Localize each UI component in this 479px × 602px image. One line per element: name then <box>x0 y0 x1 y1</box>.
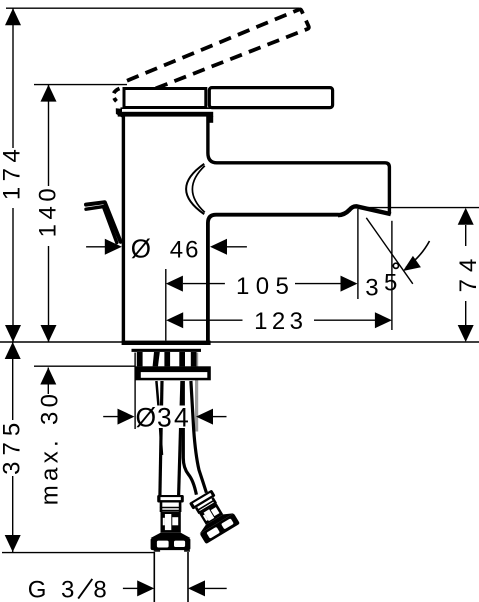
lever raised rear end (dashed arc) <box>113 89 119 102</box>
svg-text:105: 105 <box>236 273 295 300</box>
ref line: lever max height <box>6 7 299 9</box>
dim 74 <box>465 225 467 246</box>
label O34 backing <box>136 406 190 429</box>
svg-text:Ø: Ø <box>131 234 151 264</box>
dim 140 line <box>48 85 50 186</box>
lever raised pivot dash <box>116 108 122 117</box>
handle cap <box>124 89 206 108</box>
svg-text:46: 46 <box>170 236 201 263</box>
body bottom plate <box>122 341 211 345</box>
pull rod knob (upper stroke) <box>86 202 121 242</box>
svg-text:3: 3 <box>61 577 74 602</box>
hose connector right <box>183 486 240 544</box>
right hose wall R <box>191 381 207 493</box>
svg-text:74: 74 <box>455 252 479 293</box>
mounting studs <box>137 352 143 366</box>
right hose wall L <box>183 381 196 495</box>
trim ring <box>118 112 214 117</box>
spout bottom edge <box>208 215 339 341</box>
svg-text:140: 140 <box>35 184 62 238</box>
ext line: faucet axis <box>165 269 167 341</box>
hose connector left <box>151 495 191 552</box>
svg-text:5: 5 <box>384 270 397 297</box>
dim max30 line <box>47 368 49 395</box>
spout root crescent inner arc <box>192 166 204 213</box>
pull rod knob (lower stroke) <box>86 207 117 243</box>
dim 174 line <box>12 8 14 148</box>
svg-text:max. 30: max. 30 <box>37 390 64 505</box>
countertop line <box>0 341 479 343</box>
G3/8 tail tube wall R <box>187 552 189 602</box>
dim 375 line <box>12 342 14 420</box>
body left wall <box>122 116 125 341</box>
svg-text:3: 3 <box>365 275 378 302</box>
O34 ext line right (gray) <box>195 353 198 432</box>
dim O34 <box>103 416 119 418</box>
svg-text:8: 8 <box>93 577 106 602</box>
dim O46 <box>86 246 108 248</box>
body right wall + spout top edge + spout right end <box>208 116 390 214</box>
svg-text:G: G <box>28 577 47 602</box>
G3/8 tail tube wall L <box>153 552 155 602</box>
mounting flange slab <box>135 366 211 380</box>
dim G3/8 <box>123 587 138 589</box>
dim 123 <box>166 312 183 328</box>
left hose wall R <box>179 381 182 496</box>
ref line: cap top (140) <box>34 84 127 86</box>
svg-text:Ø: Ø <box>136 402 157 432</box>
bottom ref line <box>2 552 154 554</box>
svg-text:174: 174 <box>0 144 26 201</box>
ref line: outlet height <box>358 207 479 209</box>
left hose wall L <box>160 381 162 496</box>
svg-text:123: 123 <box>254 308 307 335</box>
lever bar <box>209 88 332 108</box>
aerator beak <box>338 206 391 215</box>
lever raised (dashed) <box>127 9 309 90</box>
angle arc leader <box>406 241 430 268</box>
pull rod below deck <box>156 381 162 455</box>
ext line: spout end <box>391 221 393 330</box>
ref line: counter underside <box>34 365 135 367</box>
angle 35 leg <box>366 218 413 284</box>
cap bottom line <box>121 107 211 109</box>
ext line: aerator outlet <box>357 209 359 299</box>
spout root crescent outer arc <box>186 164 204 214</box>
O34 ext line left <box>134 353 136 430</box>
svg-text:375: 375 <box>0 417 26 475</box>
base ring <box>132 349 202 352</box>
dim 105 <box>166 276 183 292</box>
trim ring right step <box>209 116 214 123</box>
svg-text:34: 34 <box>157 402 191 432</box>
